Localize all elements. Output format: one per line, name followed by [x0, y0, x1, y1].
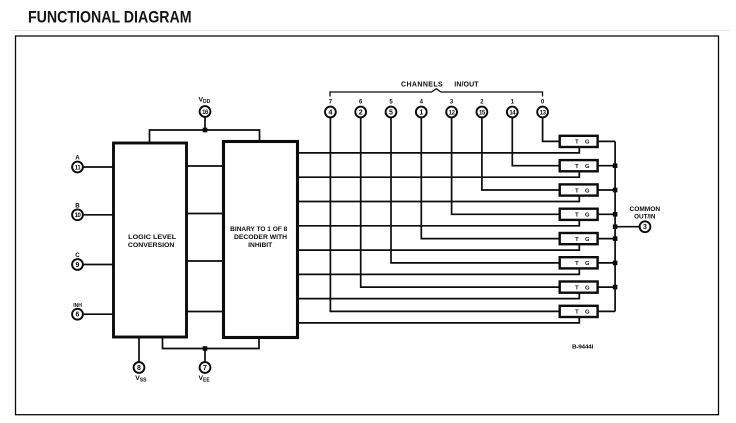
- junction TG6 output: [613, 285, 618, 290]
- wire decoder out 6: [298, 293, 580, 299]
- junction TG1 output: [613, 163, 618, 168]
- bracket channels in/out: [330, 89, 543, 97]
- svg-text:INH: INH: [73, 303, 82, 309]
- wire TG1 output: [598, 165, 616, 167]
- wire channel 7: [330, 117, 559, 311]
- svg-text:CHANNELS: CHANNELS: [401, 81, 443, 88]
- wire B level-shifted: [187, 213, 224, 215]
- wire decoder out 2: [298, 196, 580, 202]
- svg-text:T G: T G: [575, 285, 592, 291]
- wire TG5 output: [598, 262, 616, 264]
- wire TG2 output: [598, 189, 616, 191]
- pin channel 4 (1): [416, 99, 427, 117]
- pin channel 6 (2): [355, 99, 366, 117]
- pin B 10: [72, 203, 83, 221]
- pin channel 2 (15): [477, 99, 488, 117]
- pin A 11: [72, 155, 83, 173]
- svg-text:5: 5: [389, 109, 393, 116]
- wire channel 1: [512, 117, 559, 165]
- svg-text:3: 3: [450, 99, 454, 105]
- wire decoder out 0: [298, 147, 580, 153]
- svg-text:T G: T G: [575, 164, 592, 170]
- wire common out: [615, 226, 640, 228]
- wire TG6 output: [598, 286, 616, 288]
- pin VEE 7: [199, 362, 211, 384]
- wire decoder out 5: [298, 269, 580, 275]
- transmission gate TG2: [560, 184, 598, 195]
- wire channel 4: [421, 117, 559, 238]
- wire channel 6: [361, 117, 560, 287]
- wire VDD: [150, 117, 260, 143]
- wire A input: [83, 166, 114, 168]
- transmission gate TG5: [560, 257, 598, 268]
- svg-text:8: 8: [137, 365, 141, 372]
- wire C level-shifted: [187, 260, 224, 262]
- svg-text:IN/OUT: IN/OUT: [454, 81, 479, 88]
- transmission gate TG3: [560, 209, 598, 220]
- svg-text:7: 7: [203, 365, 207, 372]
- svg-text:OUT/IN: OUT/IN: [634, 214, 656, 221]
- wire B input: [83, 214, 114, 216]
- svg-text:3: 3: [643, 224, 647, 231]
- svg-text:T G: T G: [575, 140, 592, 146]
- svg-text:4: 4: [420, 99, 424, 105]
- pin channel 5 (5): [386, 99, 397, 117]
- svg-text:C: C: [75, 252, 80, 259]
- svg-text:2: 2: [359, 109, 363, 116]
- svg-text:B: B: [75, 203, 80, 210]
- transmission gate TG1: [560, 160, 598, 171]
- pin INH 6: [72, 303, 83, 320]
- svg-text:COMMON: COMMON: [630, 206, 661, 213]
- pin C 9: [72, 252, 83, 270]
- wire VSS: [138, 337, 140, 362]
- svg-text:DECODER WITH: DECODER WITH: [234, 234, 287, 241]
- block U1 LOGIC LEVEL CONVERSION: [114, 143, 187, 337]
- wire channel 3: [452, 117, 560, 214]
- transmission gate TG6: [560, 282, 598, 293]
- pin COMMON OUT/IN 3: [630, 206, 661, 232]
- wire TG3 output: [598, 213, 616, 215]
- pin channel 0 (13): [537, 99, 548, 117]
- junction common out: [613, 224, 618, 229]
- wire decoder out 3: [298, 220, 580, 226]
- wire common rail: [614, 141, 616, 311]
- wire INH input: [83, 313, 114, 315]
- svg-text:T G: T G: [575, 261, 592, 267]
- pin channel 3 (12): [446, 99, 457, 117]
- wire channel 5: [391, 117, 560, 263]
- pin VDD 16: [199, 97, 211, 117]
- svg-text:1: 1: [419, 109, 423, 116]
- svg-text:T G: T G: [575, 237, 592, 243]
- svg-text:6: 6: [359, 99, 363, 105]
- wire channel 0: [543, 117, 560, 141]
- wire decoder out 1: [298, 171, 580, 177]
- svg-text:BINARY TO 1 OF 8: BINARY TO 1 OF 8: [230, 226, 288, 233]
- svg-text:CONVERSION: CONVERSION: [128, 242, 175, 249]
- junction TG5 output: [613, 261, 618, 266]
- transmission gate TG0: [560, 136, 598, 147]
- svg-text:FUNCTIONAL DIAGRAM: FUNCTIONAL DIAGRAM: [28, 7, 192, 26]
- svg-text:LOGIC LEVEL: LOGIC LEVEL: [128, 234, 176, 241]
- svg-text:T G: T G: [575, 188, 592, 194]
- svg-text:2: 2: [480, 99, 484, 105]
- svg-text:VSS: VSS: [135, 375, 147, 384]
- wire decoder out 7: [298, 317, 580, 323]
- wire A level-shifted: [187, 165, 224, 167]
- wire TG4 output: [598, 238, 616, 240]
- svg-text:T G: T G: [575, 213, 592, 219]
- wire TG7 output: [598, 310, 616, 312]
- svg-text:5: 5: [389, 99, 393, 105]
- svg-text:INHIBIT: INHIBIT: [248, 242, 272, 249]
- svg-text:1: 1: [511, 99, 515, 105]
- wire INH level-shifted: [187, 311, 224, 313]
- svg-text:9: 9: [76, 262, 80, 269]
- junction TG4 output: [613, 236, 618, 241]
- svg-text:VEE: VEE: [199, 375, 211, 384]
- wire C input: [83, 264, 114, 266]
- svg-text:0: 0: [541, 99, 545, 105]
- label CHANNELS IN/OUT: [401, 81, 479, 88]
- transmission gate TG4: [560, 233, 598, 244]
- svg-text:VDD: VDD: [199, 97, 211, 106]
- svg-text:4: 4: [328, 109, 332, 116]
- wire TG0 output: [598, 140, 616, 142]
- svg-text:T G: T G: [575, 310, 592, 316]
- pin VSS 8: [134, 362, 148, 384]
- svg-text:6: 6: [76, 312, 80, 319]
- wire decoder out 4: [298, 244, 580, 250]
- block U2 BINARY TO 1 OF 8 DECODER WITH INHIBIT: [224, 142, 298, 338]
- pin channel 1 (14): [507, 99, 518, 117]
- svg-text:A: A: [75, 155, 80, 162]
- junction TG3 output: [613, 212, 618, 217]
- svg-text:7: 7: [329, 99, 333, 105]
- wire channel 2: [482, 117, 560, 190]
- pin channel 7 (4): [325, 99, 336, 117]
- junction TG2 output: [613, 188, 618, 193]
- transmission gate TG7: [560, 306, 598, 317]
- svg-text:B-9444I: B-9444I: [572, 345, 594, 351]
- wire VEE: [163, 337, 260, 362]
